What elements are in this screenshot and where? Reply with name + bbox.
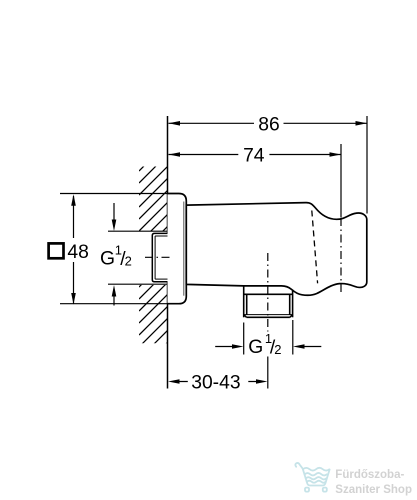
svg-text:74: 74: [243, 146, 265, 167]
svg-text:/: /: [270, 338, 276, 359]
svg-text:2: 2: [125, 253, 132, 268]
svg-text:48: 48: [67, 242, 88, 263]
svg-text:Szaniter Shop: Szaniter Shop: [335, 484, 412, 496]
svg-text:2: 2: [274, 342, 281, 357]
svg-text:86: 86: [258, 114, 279, 135]
svg-text:G: G: [100, 249, 115, 270]
svg-text:G: G: [248, 337, 263, 358]
svg-text:30-43: 30-43: [191, 372, 240, 393]
svg-text:/: /: [120, 249, 126, 270]
svg-text:Fürdőszoba-: Fürdőszoba-: [335, 469, 404, 481]
